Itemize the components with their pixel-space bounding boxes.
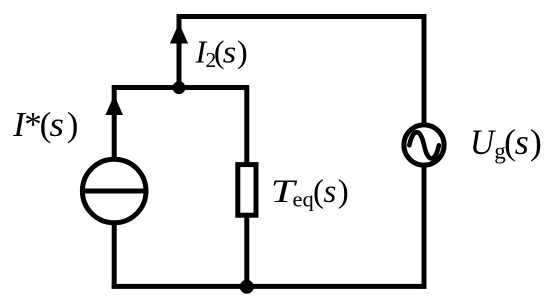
wire: middle branch vertical upper xyxy=(244,85,249,165)
wire: middle branch vertical lower xyxy=(244,215,249,286)
wire: left vertical upper xyxy=(112,85,117,161)
resistor Teq body xyxy=(238,165,256,216)
wire: bottom horizontal xyxy=(112,284,427,289)
current source bar xyxy=(84,189,144,194)
AC source Ug circle xyxy=(404,125,444,165)
junction node: middle wire xyxy=(173,81,186,94)
arrowhead on I2 wire xyxy=(170,23,188,44)
arrowhead on I* wire xyxy=(105,95,123,115)
current source I* circle xyxy=(82,159,146,223)
svg-text:I2(s): I2(s) xyxy=(195,34,248,72)
wire: right vertical lower xyxy=(422,165,427,289)
wire: middle horizontal xyxy=(112,85,249,90)
wire: I2 vertical xyxy=(177,14,182,88)
wire: top horizontal xyxy=(177,14,426,19)
wire: right vertical upper xyxy=(422,14,427,125)
AC source sine wave xyxy=(409,132,439,158)
wire: left vertical lower xyxy=(112,221,117,289)
svg-text:Teq(s): Teq(s) xyxy=(271,174,349,212)
svg-text:Ug(s): Ug(s) xyxy=(470,122,542,164)
junction node: bottom wire xyxy=(240,280,254,294)
svg-text:I*(s): I*(s) xyxy=(12,105,78,144)
